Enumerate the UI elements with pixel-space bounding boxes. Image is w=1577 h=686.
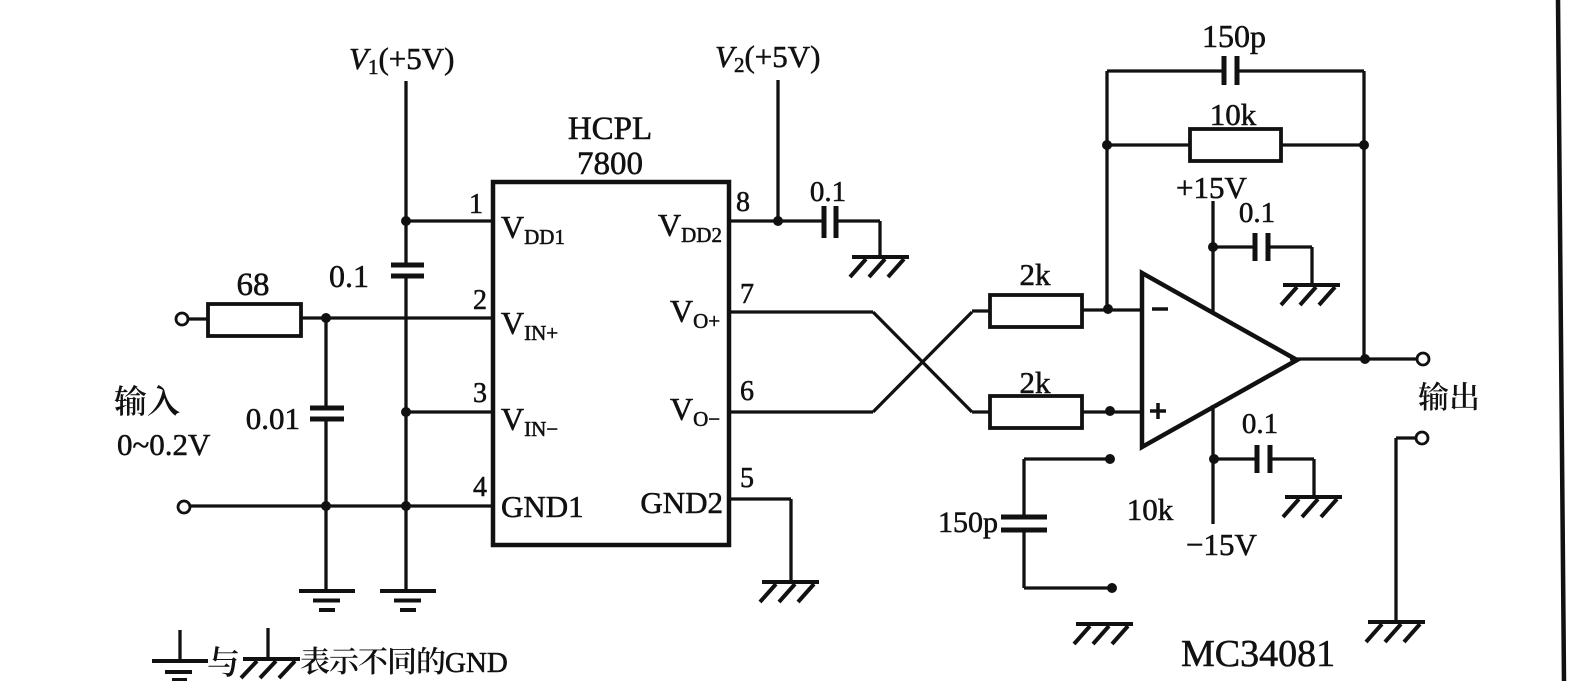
junction feedback left / 10k [1102,140,1112,150]
capacitor 0.01 [324,318,327,406]
legend 与 [208,646,238,677]
ground (chassis) pin8 [852,255,909,259]
wire feedback top (150p) left [1107,69,1222,72]
svg-text:10k: 10k [1127,492,1174,527]
svg-text:0.1: 0.1 [1239,197,1275,229]
wire stub from + input node [1024,457,1110,460]
svg-text:3: 3 [473,378,487,409]
resistor 10k (feedback) [1190,129,1281,161]
svg-text:150p: 150p [938,506,998,539]
junction V1 / pin1 [401,216,411,226]
svg-text:4: 4 [473,472,487,503]
output terminal (bottom/return) [1416,432,1428,444]
legend text 表示不同的GND [301,647,329,675]
capacitor 0.1 (VDD2 decoupling) [822,206,827,238]
svg-text:0.1: 0.1 [1242,408,1278,440]
junction - input / feedback [1103,304,1113,314]
wire input to resistor [188,317,208,320]
svg-text:MC34081: MC34081 [1181,633,1335,675]
ground (chassis) +15V [1283,283,1340,287]
wire cap to chassis ground [1270,457,1314,460]
svg-text:V2(+5V): V2(+5V) [715,39,820,77]
wire lower 2k to op-amp + input [1082,410,1142,413]
svg-text:5: 5 [740,463,754,494]
wire 0.01 branch to earth ground [324,506,327,591]
wire to 10k [1107,143,1190,146]
junction feedback right / 10k [1359,140,1369,150]
svg-text:1: 1 [469,189,483,220]
capacitor 150p (input filter) [1022,459,1025,515]
wire pin7 VO+ [729,310,873,313]
resistor 2k (lower, non-inverting input) [990,396,1082,428]
wire upper 2k to op-amp - input [1082,308,1142,311]
wire into lower 2k [972,410,990,413]
ground (chassis) -15V [1285,495,1342,499]
input terminal (bottom) [178,501,190,513]
junction stub top [1105,454,1115,464]
svg-text:+15V: +15V [1176,170,1247,205]
wire cap to ground rail [404,278,407,591]
svg-text:0.01: 0.01 [246,401,300,436]
junction +15V / 0.1 [1208,242,1218,252]
junction V2 / pin8 [773,216,783,226]
ground (chassis) output return [1368,620,1425,624]
junction output / feedback [1360,354,1370,364]
wire pin5 GND2 to ground [729,497,791,500]
svg-text:2k: 2k [1020,365,1052,400]
resistor 2k (upper, inverting input) [990,295,1082,327]
ground (earth) left [299,589,355,593]
wire cap to chassis ground [836,219,880,222]
svg-text:7: 7 [740,279,754,310]
wire V2 down [776,80,779,221]
junction -15V / 0.1 [1209,454,1219,464]
svg-text:GND1: GND1 [501,489,584,524]
wire to 0.1 cap [1214,457,1255,460]
svg-text:GND: GND [445,647,508,679]
op-amp - sign [1152,307,1168,311]
wire to pin 3 VIN- [406,410,493,413]
legend chassis ground symbol [266,628,269,658]
op-amp U2 MC34081 [1142,273,1297,447]
svg-text:0.1: 0.1 [329,258,369,294]
svg-text:−15V: −15V [1186,527,1257,562]
junction stub bottom [1107,583,1117,593]
capacitor 150p (feedback) [1222,56,1227,85]
wire cap to chassis ground [1268,245,1312,248]
svg-text:HCPL: HCPL [568,111,652,147]
wire op-amp to -15V [1211,405,1214,524]
resistor 68 [208,304,301,336]
junction + input node [1105,406,1115,416]
junction lower rail / V1 gnd line [401,501,411,511]
page scan border (right) [1558,0,1564,681]
wire 10k to right vertical [1281,143,1364,146]
svg-text:10k: 10k [1210,97,1257,132]
wire stub bottom [1024,586,1112,589]
wire op-amp output [1290,357,1417,360]
wire feedback top right [1237,69,1364,72]
capacitor 0.1 (-15V decoupling) [1255,445,1260,473]
input terminal (top) [176,313,188,325]
wire feedback right vertical [1362,71,1365,359]
capacitor 0.1 (+15V decoupling) [1253,233,1258,261]
svg-text:2: 2 [473,285,487,316]
legend earth ground symbol [178,630,181,661]
ground (earth) under V1 cap [380,589,436,593]
ground (chassis) below 150p [1076,622,1133,626]
wire into upper 2k [972,309,990,312]
op-amp + sign [1150,409,1166,413]
junction lower rail / 0.01 [321,501,331,511]
ground (chassis) GND2 [762,580,819,584]
svg-text:V1(+5V): V1(+5V) [349,41,454,79]
op-isolator U1 HCPL-7800 body [493,182,729,545]
node VIN+ junction [321,313,331,323]
wire V1 down to cap [404,81,407,263]
wire resistor to pin2 (VIN+ net) [301,316,493,319]
wire pin8 to cap [729,219,822,222]
wire return to chassis ground [1396,436,1416,439]
wire lower rail to GND1 pin4 [190,504,493,507]
wire +15V down to op-amp [1211,201,1214,313]
svg-text:8: 8 [736,187,750,218]
junction gnd line / pin3 wire [401,407,411,417]
svg-text:2k: 2k [1020,257,1052,292]
svg-text:68: 68 [237,267,270,303]
wire crossover VO+ to lower 2k [873,312,972,412]
svg-text:GND2: GND2 [640,485,723,520]
wire crossover VO- to upper 2k [873,312,972,412]
wire to 0.1 cap [1213,245,1253,248]
output terminal (top) [1417,353,1429,365]
svg-text:0.1: 0.1 [810,176,846,208]
svg-text:0~0.2V: 0~0.2V [117,427,211,462]
capacitor 0.1 (VDD1 decoupling) [391,263,424,268]
svg-text:150p: 150p [1202,18,1266,54]
label 输出 [1418,382,1448,411]
wire pin6 VO- [729,410,873,413]
label 输入 0~0.2V [114,385,146,416]
svg-text:7800: 7800 [577,146,643,182]
wire feedback left vertical [1105,71,1108,309]
wire V1 to pin 1 VDD1 [406,219,493,222]
svg-text:6: 6 [740,376,754,407]
